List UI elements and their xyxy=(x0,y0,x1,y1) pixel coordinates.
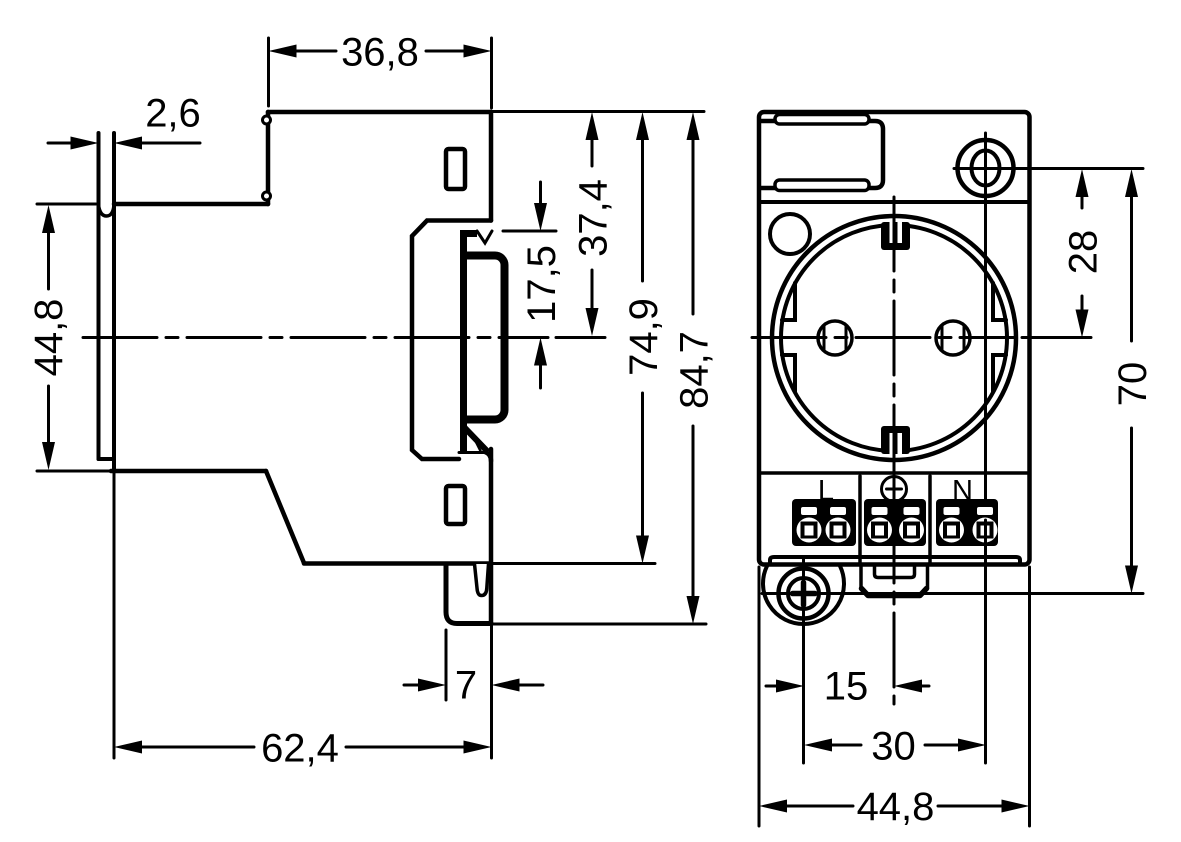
front view: housing outline xyxy=(759,112,1030,565)
side view: upper shelf line xyxy=(114,202,268,207)
front view: horizontal centre line xyxy=(752,336,1015,339)
dim 74,9 line and arrows xyxy=(641,137,644,538)
svg-text:84,7: 84,7 xyxy=(673,331,717,409)
dim 36,8 line and arrows xyxy=(294,50,465,53)
front view: mounting hole circle xyxy=(770,214,810,254)
front view: right pin hole chords xyxy=(942,326,964,351)
side view: latch wedge diagonal xyxy=(463,426,488,452)
N axis line over block xyxy=(984,520,987,546)
side view: DIN lock left wall xyxy=(460,230,467,450)
dim 44,8 line and arrows xyxy=(785,805,1006,808)
dim 37,4 line and arrows xyxy=(591,137,594,313)
dim 84,7 extension line xyxy=(491,623,706,626)
front view: terminal area separator xyxy=(759,471,1030,475)
side view: right edge upper xyxy=(489,112,494,221)
side view: hinge pin bump upper xyxy=(263,116,271,124)
dim 15 arrows xyxy=(766,685,929,688)
side view: front plate top fillet xyxy=(99,205,115,216)
dim 62,4 extension lines xyxy=(113,471,116,758)
svg-text:36,8: 36,8 xyxy=(341,31,419,75)
front view: lower rail bar xyxy=(770,557,1020,563)
side view: DIN lock channel xyxy=(463,256,505,420)
front view: bottom release tab inner notch xyxy=(875,565,915,578)
front view: bottom screw outer circle xyxy=(779,569,829,619)
terminal block N xyxy=(936,499,998,546)
svg-text:37,4: 37,4 xyxy=(572,179,616,257)
front view: N axis vertical line xyxy=(984,133,987,763)
front view: left pin hole xyxy=(818,321,852,355)
front view: bottom screw axis horizontal xyxy=(762,592,1143,595)
svg-text:17,5: 17,5 xyxy=(520,245,564,323)
front view: terminal divider right xyxy=(928,476,932,564)
side view: latch wedge vertical xyxy=(460,422,467,451)
svg-text:74,9: 74,9 xyxy=(622,298,666,376)
front view: right guide notch upper xyxy=(993,283,1006,320)
front view: bottom release tab thick base xyxy=(862,589,927,596)
svg-text:44,8: 44,8 xyxy=(27,299,71,377)
side view: latch corner to edge xyxy=(485,452,491,461)
svg-text:7: 7 xyxy=(455,664,477,708)
front view: socket inner circle xyxy=(781,225,1007,451)
side view: clip slot upper rectangle xyxy=(446,149,465,189)
front view: bottom screw boss arc xyxy=(763,566,844,624)
dim 7 extension line xyxy=(445,630,448,700)
front view: bottom screw axis vertical xyxy=(802,558,805,763)
terminal block L xyxy=(792,499,856,546)
dim 44,8 extension lines xyxy=(759,567,1030,826)
front view: left pin hole chords xyxy=(824,326,846,351)
dim 44,8 extension lines xyxy=(37,204,109,471)
svg-text:2,6: 2,6 xyxy=(145,92,201,136)
front view: top band separator xyxy=(759,200,1030,204)
svg-text:28: 28 xyxy=(1062,230,1106,275)
side view: lower chamfer diagonal xyxy=(266,471,304,563)
front view: earth contact bottom xyxy=(881,426,910,454)
dim 2,6 arrows xyxy=(48,142,200,145)
dim 84,7 line and arrows xyxy=(692,137,695,599)
svg-text:44,8: 44,8 xyxy=(857,785,935,829)
terminal block earth xyxy=(864,499,926,546)
side view: right edge lower xyxy=(489,449,494,624)
front view: right pin hole xyxy=(936,321,970,355)
svg-text:15: 15 xyxy=(824,665,869,709)
side view: front plate right line xyxy=(112,133,116,471)
dim 30 line and arrows xyxy=(830,744,960,747)
side view: latch bottom line xyxy=(459,451,486,454)
front view: vertical centre line xyxy=(893,197,896,704)
front view: earth contact top xyxy=(881,222,910,250)
front view: DIN clip tab body xyxy=(762,121,884,188)
dim 62,4 line and arrows xyxy=(140,746,466,749)
top extension line for height dims xyxy=(492,110,705,113)
dim 44,8 line and arrows xyxy=(47,230,50,445)
side view: bottom edge xyxy=(304,561,491,566)
front view: top screw slot ellipse xyxy=(972,151,1000,186)
dim 28 line and arrows xyxy=(1081,196,1084,312)
side view: DIN recess outline xyxy=(412,221,491,460)
dim 36,8 extension lines xyxy=(269,38,492,108)
front view: left guide notch upper xyxy=(782,283,795,320)
side view: front plate bottom joint xyxy=(99,457,115,461)
dim 7 arrows xyxy=(404,684,543,687)
side view: DIN lock notch xyxy=(477,231,492,243)
dim 70 line and arrows xyxy=(1130,196,1133,567)
label earth symbol xyxy=(882,477,907,502)
front view: right guide notch lower xyxy=(993,355,1006,392)
side view: hinge pin bump lower xyxy=(263,192,271,200)
front view: terminal divider left xyxy=(858,476,862,564)
side view: foot step outline xyxy=(446,564,491,624)
front view: left guide notch lower xyxy=(782,355,795,392)
dim 74,9 extension line xyxy=(492,562,656,565)
side view: front step vertical xyxy=(266,112,271,204)
side view: DIN lock top cap xyxy=(460,230,477,237)
svg-text:30: 30 xyxy=(871,725,916,769)
side view: lower shelf line xyxy=(111,469,266,474)
front view: bottom screw inner circle xyxy=(788,578,819,609)
side view: housing top edge xyxy=(268,110,491,115)
side view: clip slot lower rectangle xyxy=(446,486,465,524)
side view: front plate left line xyxy=(97,133,101,459)
svg-text:70: 70 xyxy=(1111,362,1155,407)
front view: bottom release tab outline xyxy=(859,565,863,588)
side view: centre axis dash-dot xyxy=(83,336,548,339)
dim 17,5 extension line xyxy=(503,230,556,233)
front view: screw axis extension line xyxy=(954,167,1143,170)
front view: clip tab lower flange xyxy=(775,180,869,191)
front view: socket outer circle xyxy=(772,216,1016,460)
front view: clip tab upper flange xyxy=(775,115,869,125)
front view: bottom screw cross xyxy=(793,591,816,597)
front view: top screw outer circle xyxy=(958,140,1014,196)
svg-text:62,4: 62,4 xyxy=(261,727,339,771)
side view: release tab in foot xyxy=(475,564,489,596)
dim 17,5 arrows xyxy=(539,182,542,388)
